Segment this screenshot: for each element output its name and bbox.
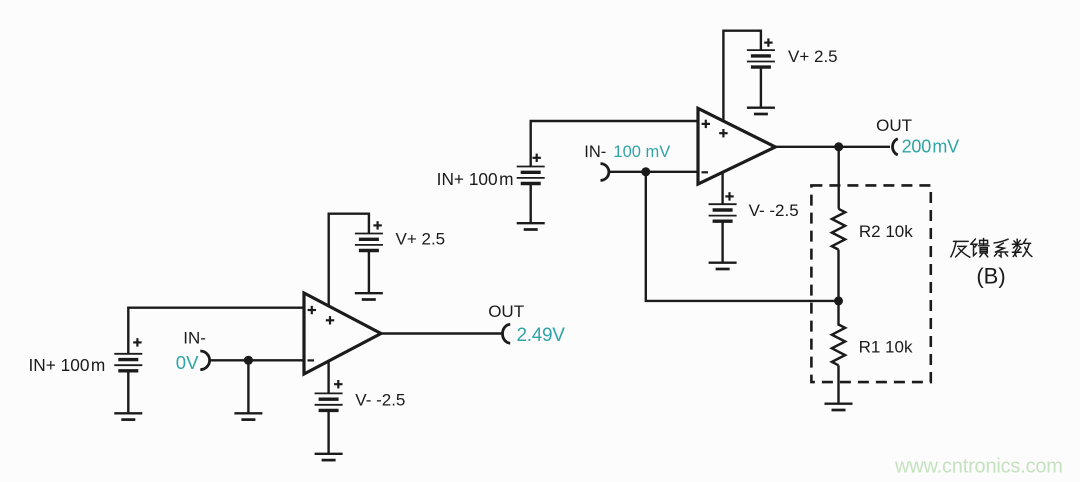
svg-text:IN-: IN- — [183, 328, 206, 347]
svg-text:2.49V: 2.49V — [517, 325, 566, 346]
svg-text:OUT: OUT — [876, 116, 912, 135]
svg-text:IN-: IN- — [584, 143, 606, 161]
svg-text:200 mV: 200 mV — [902, 137, 960, 157]
svg-text:V+ 2.5: V+ 2.5 — [788, 47, 838, 66]
svg-text:IN+ 100 m: IN+ 100 m — [28, 355, 105, 375]
svg-text:IN+ 100 m: IN+ 100 m — [437, 169, 514, 189]
svg-text:100 mV: 100 mV — [613, 143, 670, 161]
svg-text:R1 10k: R1 10k — [859, 338, 913, 357]
svg-text:(B): (B) — [976, 264, 1005, 289]
svg-text:0V: 0V — [176, 352, 199, 373]
svg-text:V- -2.5: V- -2.5 — [749, 201, 799, 220]
svg-text:www.cntronics.com: www.cntronics.com — [894, 456, 1063, 478]
svg-text:V- -2.5: V- -2.5 — [355, 391, 405, 410]
svg-text:R2 10k: R2 10k — [859, 222, 913, 241]
svg-text:OUT: OUT — [488, 302, 524, 321]
svg-text:V+ 2.5: V+ 2.5 — [396, 229, 446, 248]
